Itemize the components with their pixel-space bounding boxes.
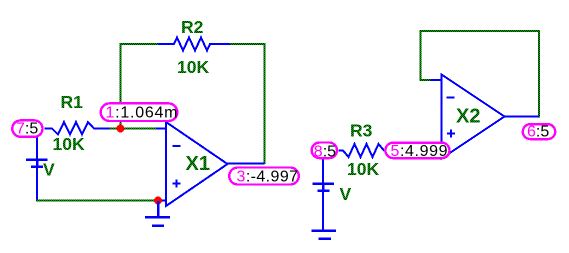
voltage source V1 plates [26,160,48,167]
wire: R2 top left segment [120,43,159,45]
svg-text:X2: X2 [456,106,480,128]
svg-text:R2: R2 [181,17,204,37]
node label 1:1.064m [101,103,179,121]
wire: bottom from source to op-amp plus [36,200,158,202]
wire: R2 top right segment [229,43,266,45]
svg-text:10K: 10K [177,57,209,77]
node label 3:-4.997 [229,168,299,186]
node label 7:5 [12,120,42,137]
resistor R3 [339,144,388,157]
wire: feedback left vertical (node 1) [120,43,122,129]
ground (left) [145,201,170,226]
wire: X2 feedback top [420,30,541,32]
wire: to X2 minus [420,79,432,81]
svg-text:V: V [340,184,352,204]
svg-text:10K: 10K [347,159,379,179]
voltage source V1 lead top [36,137,38,200]
wire: feedback right vertical to output [264,43,266,164]
node label 5:4.999 [385,143,449,160]
junction node 0 (op-amp plus) [154,197,162,205]
resistor R2 [158,38,230,51]
wire: X2 feedback right vertical [538,30,540,118]
resistor R1 [45,122,110,135]
wire: X2 feedback left vertical [420,30,422,80]
svg-text:6:5: 6:5 [527,123,549,140]
ground (right) [312,231,337,239]
svg-text:X1: X1 [186,153,210,175]
node label 8:5 [312,143,337,161]
svg-text:1:1.064m: 1:1.064m [106,105,179,122]
svg-text:R3: R3 [350,121,373,141]
op-amp X2 [431,75,540,159]
junction node 1 [117,125,125,133]
wire: R1 output to op-amp minus [109,128,157,130]
svg-text:3:-4.997: 3:-4.997 [237,169,299,186]
svg-text:7:5: 7:5 [16,121,38,138]
svg-text:8:5: 8:5 [314,143,336,160]
voltage source V2 leads [322,158,324,231]
node label 6:5 [523,123,555,140]
svg-text:5:4.999: 5:4.999 [391,143,449,160]
op-amp X1 [156,122,265,206]
svg-text:V: V [43,160,55,180]
svg-text:10K: 10K [53,134,85,154]
voltage source V2 plates [313,184,335,191]
svg-text:R1: R1 [61,92,84,112]
